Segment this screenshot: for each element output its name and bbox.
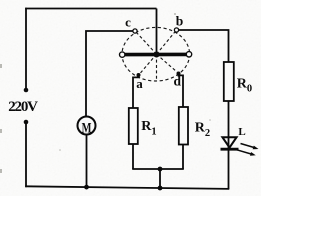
wire left upper (220V to top bus) bbox=[25, 8, 27, 90]
wire R0 to lamp L bbox=[228, 101, 230, 148]
rotary switch dashed circle bbox=[122, 27, 190, 81]
resistor R0 bbox=[224, 62, 234, 101]
rotary switch center pivot bbox=[154, 52, 160, 58]
wire R2 to connector bbox=[182, 145, 184, 170]
junction motor-bottom bus bbox=[84, 185, 89, 190]
motor M bbox=[78, 117, 96, 135]
terminal b bbox=[174, 28, 178, 32]
rotary switch dashed radius down bbox=[156, 54, 158, 80]
svg-text:220V: 220V bbox=[8, 99, 38, 115]
wire d to R2 bbox=[178, 74, 183, 107]
wire a to R1 bbox=[133, 76, 139, 109]
wire switch feed (top bus down to rotor center) bbox=[156, 9, 158, 55]
LED L triangle bbox=[222, 137, 236, 147]
wire R1 to connector bbox=[132, 144, 134, 169]
rotary switch dashed radius to b bbox=[157, 32, 176, 54]
LED light arrow 2 bbox=[237, 150, 256, 156]
terminal 220V upper bbox=[24, 88, 29, 93]
rotary switch bar end right bbox=[186, 52, 191, 57]
wire left lower (220V to bottom bus) bbox=[25, 122, 27, 187]
svg-text:M: M bbox=[82, 120, 92, 136]
wire b to R0 branch bbox=[179, 30, 229, 62]
resistor R1 bbox=[129, 108, 138, 144]
LED light arrow 1 bbox=[241, 144, 259, 150]
rotary switch dashed radius to c bbox=[137, 33, 157, 54]
wire L to bottom bus bbox=[228, 150, 230, 189]
resistor R2 bbox=[179, 107, 188, 145]
wire motor to bottom bus bbox=[86, 135, 88, 188]
junction tap-bottom bus bbox=[158, 186, 163, 191]
junction connector center bbox=[158, 167, 163, 172]
terminal d bbox=[177, 72, 181, 76]
terminal a bbox=[137, 73, 141, 77]
svg-text:b: b bbox=[176, 13, 184, 28]
wire R1-R2 bottom connector bbox=[132, 168, 184, 170]
rotary switch bar end left bbox=[120, 52, 125, 57]
rotary switch contact bar bbox=[123, 53, 189, 57]
wire bottom bus bbox=[25, 186, 229, 189]
terminal 220V lower bbox=[24, 120, 29, 125]
wire center tap to bottom bus bbox=[159, 169, 161, 188]
wire top bus bbox=[25, 8, 156, 10]
scan speckles bbox=[0, 13, 211, 173]
LED L cathode bar bbox=[221, 148, 239, 151]
svg-text:c: c bbox=[125, 14, 131, 29]
svg-text:L: L bbox=[238, 126, 245, 138]
terminal c bbox=[133, 29, 137, 33]
wire c to motor branch bbox=[86, 31, 133, 117]
rotary switch dashed radius to d bbox=[157, 54, 178, 72]
rotary switch dashed radius to a bbox=[140, 54, 157, 73]
